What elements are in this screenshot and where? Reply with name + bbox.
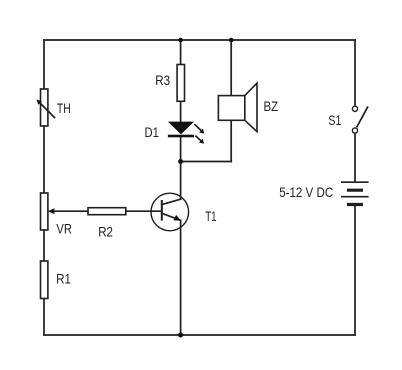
wire R2 to T1 base [126,210,162,212]
LED D1 [168,122,204,144]
svg-text:BZ: BZ [264,99,279,114]
junction node at top rail and buzzer [229,38,234,43]
wire buzzer bottom branch [230,120,232,161]
svg-text:S1: S1 [328,113,341,128]
wire buzzer top branch [230,40,232,96]
wire left: VR to R1 [43,230,45,261]
wire center: top rail to R3 [180,40,182,65]
wire top rail [44,39,355,41]
wire left: R1 to bottom rail [43,299,45,336]
junction node D1 cathode / buzzer / collector [178,159,183,164]
svg-text:R2: R2 [98,225,113,240]
wire center: T1 emitter to bottom rail [180,220,182,335]
resistor R3 [177,65,184,102]
wire right: battery to bottom rail [354,205,356,335]
potentiometer VR [41,193,55,230]
wire left: TH to VR [43,126,45,193]
buzzer BZ [218,83,257,132]
resistor R1 [41,261,48,299]
junction node at top rail and R3 [178,38,183,43]
wire bottom rail [44,334,355,336]
wire VR wiper to R2 [53,210,88,212]
svg-text:TH: TH [57,101,71,116]
resistor R2 [88,208,126,215]
svg-text:VR: VR [56,222,72,237]
svg-text:D1: D1 [145,125,159,140]
thermistor TH [36,89,54,126]
wire center: D1 to T1 collector [180,137,182,199]
wire right: S1 to battery [354,133,356,182]
wire right: top rail to S1 [354,40,356,106]
svg-text:T1: T1 [205,209,216,224]
svg-text:5-12 V DC: 5-12 V DC [279,185,333,200]
wire center: R3 to D1 [180,101,182,122]
wire left: top rail to TH [43,40,45,89]
transistor T1 [151,193,189,231]
battery 5-12 V DC [341,182,369,204]
switch S1 [352,106,367,133]
svg-text:R1: R1 [56,272,71,287]
svg-text:R3: R3 [155,73,170,88]
junction node at bottom rail and emitter [178,333,183,338]
wire node to buzzer horizontal [181,161,232,163]
